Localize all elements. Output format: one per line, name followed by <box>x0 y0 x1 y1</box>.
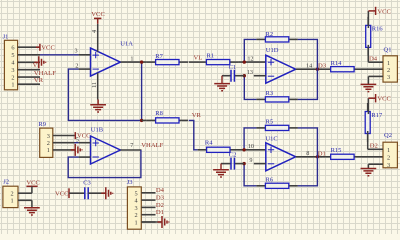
svg-text:D2: D2 <box>370 143 378 150</box>
svg-text:3: 3 <box>387 162 390 169</box>
svg-text:U1D: U1D <box>266 47 279 54</box>
svg-text:C3: C3 <box>83 179 91 186</box>
svg-text:5: 5 <box>134 190 137 197</box>
svg-text:C1: C1 <box>229 64 237 71</box>
svg-text:2: 2 <box>134 212 137 219</box>
svg-text:R7: R7 <box>155 53 163 60</box>
svg-text:VCC: VCC <box>41 44 55 51</box>
svg-text:R5: R5 <box>266 118 274 125</box>
svg-text:U1B: U1B <box>91 127 104 134</box>
svg-text:VCC: VCC <box>77 132 91 139</box>
svg-text:1: 1 <box>387 147 390 154</box>
svg-text:R14: R14 <box>331 60 343 67</box>
svg-text:3: 3 <box>387 74 390 81</box>
svg-text:10: 10 <box>248 143 254 150</box>
svg-text:2: 2 <box>387 154 390 161</box>
svg-text:1: 1 <box>130 55 133 62</box>
svg-text:U1C: U1C <box>265 135 277 142</box>
svg-text:U1A: U1A <box>120 41 133 48</box>
svg-text:Q2: Q2 <box>384 132 392 139</box>
svg-text:3: 3 <box>11 67 14 74</box>
svg-text:R9: R9 <box>38 121 46 128</box>
svg-text:8: 8 <box>306 150 309 157</box>
svg-text:1: 1 <box>47 147 50 154</box>
svg-text:7: 7 <box>130 142 133 149</box>
svg-text:D4: D4 <box>369 55 378 62</box>
svg-text:R15: R15 <box>331 147 342 154</box>
svg-text:1: 1 <box>11 82 14 89</box>
svg-text:1: 1 <box>387 60 390 67</box>
svg-text:VCC: VCC <box>55 191 69 198</box>
svg-text:1: 1 <box>134 220 137 227</box>
svg-text:2: 2 <box>387 67 390 74</box>
svg-text:VCC: VCC <box>377 96 391 103</box>
svg-text:VHALF: VHALF <box>141 142 163 149</box>
svg-text:R1: R1 <box>207 53 215 60</box>
svg-text:12: 12 <box>247 55 253 62</box>
svg-text:R16: R16 <box>372 26 384 33</box>
svg-text:D3: D3 <box>156 195 165 202</box>
svg-text:1: 1 <box>10 198 13 205</box>
svg-text:VI: VI <box>33 62 40 69</box>
svg-text:D2: D2 <box>156 202 164 209</box>
svg-text:3: 3 <box>134 205 137 212</box>
svg-text:D1: D1 <box>156 209 164 216</box>
svg-text:13: 13 <box>247 69 253 76</box>
svg-text:2: 2 <box>11 74 14 81</box>
svg-text:4: 4 <box>91 30 98 33</box>
svg-text:2: 2 <box>47 140 50 147</box>
svg-text:VCC: VCC <box>26 179 40 186</box>
svg-text:J2: J2 <box>3 178 9 185</box>
svg-text:11: 11 <box>91 82 98 88</box>
svg-text:9: 9 <box>249 157 252 164</box>
svg-text:J1: J1 <box>3 33 9 40</box>
svg-text:D4: D4 <box>156 187 165 194</box>
svg-text:VR: VR <box>34 77 44 84</box>
svg-text:R17: R17 <box>371 112 383 119</box>
svg-text:Q1: Q1 <box>384 47 392 54</box>
svg-text:R2: R2 <box>266 31 274 38</box>
svg-text:R8: R8 <box>155 110 163 117</box>
svg-text:R4: R4 <box>205 140 213 147</box>
svg-text:VCC: VCC <box>377 8 391 15</box>
svg-text:J3: J3 <box>127 179 133 186</box>
svg-text:5: 5 <box>76 137 79 144</box>
svg-text:2: 2 <box>75 62 78 69</box>
svg-text:R3: R3 <box>266 90 274 97</box>
svg-text:3: 3 <box>47 133 50 140</box>
svg-text:2: 2 <box>10 191 13 198</box>
svg-text:3: 3 <box>75 47 78 54</box>
svg-text:14: 14 <box>306 62 312 69</box>
svg-text:R6: R6 <box>266 177 274 184</box>
svg-text:5: 5 <box>11 52 14 59</box>
svg-text:VR: VR <box>192 112 202 119</box>
svg-text:VL: VL <box>194 55 203 62</box>
svg-text:VCC: VCC <box>91 11 105 18</box>
svg-text:6: 6 <box>11 45 14 52</box>
svg-text:C2: C2 <box>229 152 237 159</box>
svg-text:VHALF: VHALF <box>34 70 56 77</box>
